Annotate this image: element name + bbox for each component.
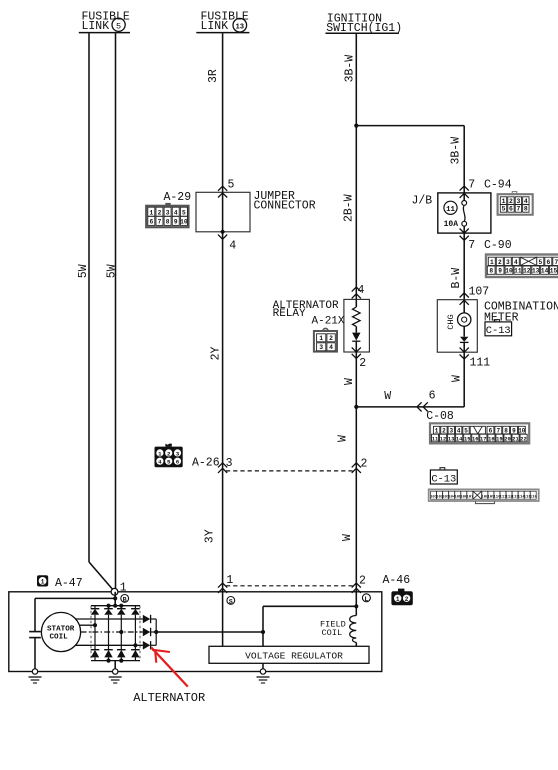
wire 3R	[222, 33, 224, 192]
wire coil to regulator	[355, 643, 357, 647]
jumper connector A-29 box	[196, 192, 250, 232]
svg-text:6: 6	[489, 427, 493, 434]
svg-text:3B-W: 3B-W	[343, 55, 356, 83]
svg-text:C-08: C-08	[426, 410, 454, 423]
wire label 3B-W right	[450, 137, 463, 165]
svg-text:15: 15	[464, 436, 470, 442]
wire label 5W right	[105, 264, 118, 278]
svg-text:3: 3	[226, 457, 233, 470]
stator coil circle	[41, 612, 80, 651]
label CHG	[446, 314, 456, 329]
svg-text:4: 4	[329, 344, 333, 351]
svg-text:2: 2	[405, 596, 409, 603]
ground capacitor	[29, 669, 42, 683]
wire L tee horizontal	[263, 605, 356, 607]
terminal letter L	[362, 594, 370, 604]
trio bus	[155, 619, 157, 645]
svg-text:3: 3	[166, 209, 170, 216]
pin 2 arrows relay	[352, 347, 361, 358]
net label FUSIBLE LINK 5	[79, 10, 130, 33]
svg-text:9: 9	[174, 219, 178, 226]
wire label 2Y	[209, 346, 222, 360]
pin 1 label A-47	[120, 582, 127, 595]
ground regulator	[257, 669, 270, 683]
svg-text:10: 10	[518, 427, 526, 434]
svg-text:6: 6	[149, 219, 153, 226]
stator phase wire 3	[76, 643, 143, 647]
svg-text:2: 2	[329, 335, 333, 342]
svg-text:2: 2	[158, 209, 162, 216]
wire 3Y	[222, 471, 224, 592]
label A-21X	[312, 316, 345, 328]
wire 5W right	[115, 33, 117, 588]
svg-text:S: S	[229, 598, 233, 606]
wire W lower	[355, 471, 357, 592]
svg-text:2: 2	[359, 574, 366, 587]
svg-text:19: 19	[496, 436, 502, 442]
stator phase wire 1	[76, 618, 143, 620]
junction trio out	[154, 630, 158, 634]
label A-26	[192, 457, 220, 470]
connector A-46 icon	[391, 589, 412, 606]
svg-text:5: 5	[116, 22, 121, 32]
svg-text:1: 1	[319, 335, 323, 342]
pin 1 arrows A-46	[218, 583, 227, 593]
svg-text:7: 7	[554, 259, 558, 266]
svg-text:13: 13	[448, 436, 454, 442]
pin 4 label relay	[358, 284, 365, 297]
junction L tee	[354, 604, 358, 608]
svg-text:5: 5	[182, 209, 186, 216]
svg-text:CONNECTOR: CONNECTOR	[254, 199, 316, 212]
voltage regulator box	[209, 646, 369, 663]
svg-text:22: 22	[520, 436, 526, 442]
label C-90	[484, 239, 512, 252]
junction ignition branch	[354, 124, 358, 128]
relay wire to pin2	[355, 341, 357, 352]
label METER	[484, 312, 519, 325]
label J/B	[412, 195, 433, 208]
svg-text:L: L	[364, 596, 368, 604]
svg-text:1: 1	[149, 209, 153, 216]
connector A-47 icon	[37, 575, 48, 586]
wire label W horizontal	[384, 390, 391, 403]
svg-text:A-47: A-47	[55, 577, 83, 590]
wire L tee down	[262, 606, 264, 646]
rectifier diodes	[91, 606, 140, 661]
svg-text:1: 1	[396, 596, 400, 603]
pin 7 exit arrows	[460, 229, 469, 241]
label A-29	[164, 191, 192, 204]
rectifier bridge frame	[91, 606, 140, 661]
node 2 label (A-26)	[361, 457, 368, 470]
svg-text:4: 4	[514, 259, 518, 266]
label C-08	[426, 410, 454, 423]
svg-text:1: 1	[120, 582, 127, 595]
svg-text:10A: 10A	[444, 220, 459, 229]
fuse 11 10A	[462, 193, 467, 233]
svg-text:4: 4	[358, 284, 365, 297]
pin 7 label bottom	[468, 239, 475, 252]
svg-text:14: 14	[456, 436, 463, 442]
svg-text:111: 111	[470, 356, 491, 369]
svg-text:METER: METER	[484, 312, 519, 325]
relay coil resistor	[353, 299, 361, 332]
connector C-13 strip	[429, 489, 539, 503]
svg-text:10: 10	[180, 219, 188, 226]
wire W relay	[355, 352, 357, 407]
wire label 3R	[207, 69, 220, 83]
svg-text:9: 9	[498, 268, 502, 275]
label A-46	[383, 574, 411, 587]
svg-text:VOLTAGE REGULATOR: VOLTAGE REGULATOR	[245, 651, 343, 662]
junction W	[354, 405, 358, 409]
wire capacitor bottom	[34, 638, 36, 672]
pin 5 arrows	[218, 186, 227, 197]
field coil	[350, 616, 357, 643]
svg-text:B: B	[123, 596, 127, 604]
svg-text:14: 14	[541, 268, 549, 275]
connector C-08 icon	[430, 423, 529, 443]
pin 2 label A-46	[359, 574, 366, 587]
svg-text:17: 17	[480, 436, 486, 442]
svg-text:7: 7	[468, 239, 475, 252]
wire label W meter	[450, 375, 463, 382]
svg-text:11: 11	[432, 436, 438, 442]
label FIELD COIL	[320, 620, 346, 639]
svg-text:3: 3	[516, 198, 520, 205]
svg-text:C-94: C-94	[484, 179, 512, 192]
svg-text:13: 13	[532, 268, 540, 275]
svg-text:C-90: C-90	[484, 239, 512, 252]
svg-text:6: 6	[176, 459, 180, 466]
svg-text:1: 1	[158, 450, 162, 457]
svg-text:11: 11	[514, 268, 522, 275]
svg-text:8: 8	[524, 206, 528, 213]
label JUMPER	[254, 190, 296, 203]
svg-text:7: 7	[468, 178, 475, 191]
svg-text:7: 7	[158, 219, 162, 226]
dashed connector line A-46	[226, 585, 353, 587]
svg-text:20: 20	[504, 436, 510, 442]
svg-text:3R: 3R	[207, 69, 220, 83]
svg-text:5: 5	[538, 259, 542, 266]
svg-text:7: 7	[496, 427, 500, 434]
wire L down	[355, 592, 357, 616]
svg-text:5: 5	[464, 427, 468, 434]
wire regulator ground	[262, 663, 264, 671]
svg-text:1: 1	[502, 198, 506, 205]
svg-text:W: W	[341, 534, 354, 541]
wire W meter	[356, 352, 464, 407]
label ALTERNATOR	[133, 691, 205, 705]
wire label 3Y	[204, 529, 217, 543]
fuse rating 10A	[444, 220, 459, 229]
svg-text:2: 2	[442, 427, 446, 434]
diode in meter	[460, 337, 469, 343]
svg-text:LINK: LINK	[82, 20, 110, 33]
svg-text:W: W	[343, 378, 356, 385]
alternator box	[9, 592, 382, 672]
stator phase wire 2	[81, 630, 143, 634]
combination meter box	[437, 300, 477, 353]
svg-text:1: 1	[435, 427, 439, 434]
junction regulator	[261, 630, 265, 634]
svg-text:LINK: LINK	[201, 20, 229, 33]
connector label C-13 upper	[485, 320, 512, 338]
svg-text:2: 2	[167, 450, 171, 457]
capacitor C	[29, 632, 41, 638]
svg-text:4: 4	[229, 240, 236, 253]
pin 4 arrow	[218, 235, 227, 240]
net label IGNITION SWITCH(IG1)	[326, 13, 403, 36]
svg-text:16: 16	[472, 436, 478, 442]
connector C-94 icon	[498, 192, 533, 215]
connector label C-13 lower	[430, 468, 457, 486]
wire label 5W left	[77, 264, 90, 278]
svg-text:8: 8	[166, 219, 170, 226]
svg-text:12: 12	[523, 268, 531, 275]
svg-text:RELAY: RELAY	[273, 308, 306, 320]
wire capacitor top	[35, 598, 115, 631]
pin 4 arrows relay	[352, 287, 361, 298]
svg-text:11: 11	[446, 206, 455, 214]
charge lamp CHG	[458, 313, 471, 326]
junction block J/B box	[438, 193, 491, 233]
wire S internal	[222, 592, 224, 647]
svg-text:2: 2	[498, 259, 502, 266]
wire label W relay	[343, 378, 356, 385]
node A-29 pin4 junction	[221, 230, 225, 234]
terminal B circle	[111, 588, 118, 595]
wire B-W	[463, 233, 465, 300]
pin 111 label	[470, 356, 491, 369]
svg-text:W: W	[384, 390, 391, 403]
pin 4 label	[229, 240, 236, 253]
pin 7 label top	[468, 178, 475, 191]
svg-text:5W: 5W	[77, 264, 90, 278]
svg-text:107: 107	[469, 286, 490, 299]
svg-text:3: 3	[449, 427, 453, 434]
trio diodes	[143, 615, 156, 650]
svg-text:B-W: B-W	[450, 268, 463, 289]
svg-text:10: 10	[505, 268, 513, 275]
svg-text:W: W	[450, 375, 463, 382]
svg-text:4: 4	[524, 198, 528, 205]
wire label 2B-W	[342, 194, 355, 222]
wire bridge ground	[114, 661, 116, 672]
alternator relay A-21X box	[344, 299, 370, 352]
label C-94	[484, 179, 512, 192]
svg-text:5: 5	[167, 459, 171, 466]
connector A-26 icon	[155, 444, 183, 468]
pin 1 label A-46	[226, 574, 233, 587]
svg-text:116: 116	[530, 496, 538, 500]
svg-text:4: 4	[174, 209, 178, 216]
label A-47	[55, 577, 83, 590]
junction bridge top	[113, 604, 117, 608]
wire B to bridge	[114, 592, 116, 606]
svg-text:3Y: 3Y	[204, 529, 217, 543]
pin 7 arrows	[460, 186, 469, 198]
svg-text:7: 7	[516, 206, 520, 213]
label COMBINATION	[484, 300, 558, 313]
svg-text:5: 5	[228, 179, 235, 192]
node 3 arrows	[218, 463, 227, 473]
svg-text:3: 3	[319, 344, 323, 351]
svg-text:ALTERNATOR: ALTERNATOR	[133, 691, 205, 705]
wire label 3B-W	[343, 55, 356, 83]
pin 5 label	[228, 179, 235, 192]
node 2 arrows (A-26)	[352, 463, 361, 473]
wire branch down	[463, 126, 465, 193]
pin 2 arrows A-46	[352, 583, 361, 593]
svg-text:13: 13	[235, 23, 244, 31]
svg-text:4: 4	[457, 427, 461, 434]
svg-text:COIL: COIL	[322, 628, 343, 638]
connector C-90 icon	[486, 255, 558, 278]
wire lamp to diode	[463, 326, 465, 336]
wire W middle	[355, 407, 357, 471]
svg-text:C-13: C-13	[431, 473, 456, 485]
red arrow	[151, 647, 188, 686]
label CONNECTOR	[254, 199, 316, 212]
pin 6 arrows	[417, 402, 428, 411]
svg-text:2B-W: 2B-W	[342, 194, 355, 222]
pin 6 label	[429, 390, 436, 403]
svg-text:21: 21	[512, 436, 518, 442]
wire label B-W	[450, 268, 463, 289]
svg-text:A-26: A-26	[192, 457, 220, 470]
svg-text:8: 8	[504, 427, 508, 434]
label VOLTAGE REGULATOR	[245, 651, 343, 662]
svg-text:12: 12	[440, 436, 446, 442]
wire 2Y	[222, 232, 224, 471]
connector A-21X icon	[314, 328, 337, 351]
node 3 label	[226, 457, 233, 470]
svg-text:6: 6	[429, 390, 436, 403]
svg-text:5W: 5W	[105, 264, 118, 278]
svg-text:4: 4	[158, 459, 162, 466]
label STATOR COIL	[47, 625, 75, 641]
svg-text:A-29: A-29	[164, 191, 192, 204]
svg-text:9: 9	[512, 427, 516, 434]
svg-text:3B-W: 3B-W	[450, 137, 463, 165]
relay diode	[352, 333, 360, 342]
svg-text:2Y: 2Y	[209, 346, 222, 360]
pin 111 arrows	[460, 348, 469, 359]
svg-text:18: 18	[488, 436, 494, 442]
svg-text:COIL: COIL	[50, 633, 69, 641]
wire diode to pin 111	[463, 342, 465, 352]
wire 3B-W main	[355, 34, 357, 300]
svg-text:2: 2	[359, 357, 366, 370]
net label FUSIBLE LINK 13	[196, 10, 249, 33]
wire branch horizontal	[356, 125, 464, 127]
bridge bus junctions	[106, 604, 123, 663]
junction capacitor	[113, 596, 117, 600]
svg-text:3: 3	[176, 450, 180, 457]
svg-text:A-46: A-46	[383, 574, 411, 587]
label ALTERNATOR RELAY	[273, 300, 339, 320]
fuse number circled 11	[444, 201, 457, 214]
pin 2 label relay	[359, 357, 366, 370]
svg-text:15: 15	[550, 268, 558, 275]
svg-text:CHG: CHG	[446, 314, 456, 329]
svg-text:STATOR: STATOR	[47, 625, 75, 633]
svg-text:W: W	[337, 435, 350, 442]
svg-text:C-13: C-13	[486, 325, 511, 337]
ground bridge	[109, 669, 122, 683]
wire trio to regulator	[156, 631, 263, 633]
svg-text:1: 1	[41, 579, 45, 586]
svg-text:2: 2	[361, 457, 368, 470]
terminal letter S	[227, 597, 235, 607]
svg-text:6: 6	[509, 206, 513, 213]
wire label W lower	[341, 534, 354, 541]
stator phase tap 1	[79, 623, 97, 627]
wire label W middle	[337, 435, 350, 442]
svg-text:J/B: J/B	[412, 195, 433, 208]
svg-text:1: 1	[490, 259, 494, 266]
terminal letter B	[121, 595, 129, 605]
svg-text:2: 2	[509, 198, 513, 205]
dashed connector line A-26	[226, 470, 353, 472]
wire inside meter top	[463, 300, 465, 313]
svg-text:6: 6	[546, 259, 550, 266]
svg-text:3: 3	[506, 259, 510, 266]
svg-text:5: 5	[502, 206, 506, 213]
svg-text:A-21X: A-21X	[312, 316, 345, 328]
wire 5W left	[89, 33, 113, 590]
pin 107 arrows	[460, 293, 469, 305]
pin 107 label	[469, 286, 490, 299]
connector A-29 pin grid	[146, 203, 188, 227]
wire inside A-29	[222, 192, 224, 232]
svg-text:8: 8	[489, 268, 493, 275]
